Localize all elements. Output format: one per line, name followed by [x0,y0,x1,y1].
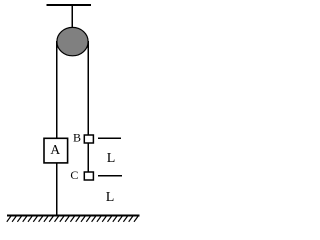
left rope [56,41,58,216]
pulley [57,27,88,55]
block A box [44,138,68,163]
svg-text:B: B [73,131,81,145]
ceiling bar [47,4,92,6]
marker C square [84,172,93,180]
right rope [87,41,89,172]
support rod [71,5,73,30]
marker B square [84,135,93,143]
svg-text:C: C [70,168,78,182]
svg-text:A: A [50,142,60,157]
level dash at B [98,137,121,139]
ground line [7,215,140,217]
ground hatching [7,216,138,222]
svg-text:L: L [107,151,116,166]
svg-text:L: L [106,190,115,205]
level dash at C [98,175,122,177]
